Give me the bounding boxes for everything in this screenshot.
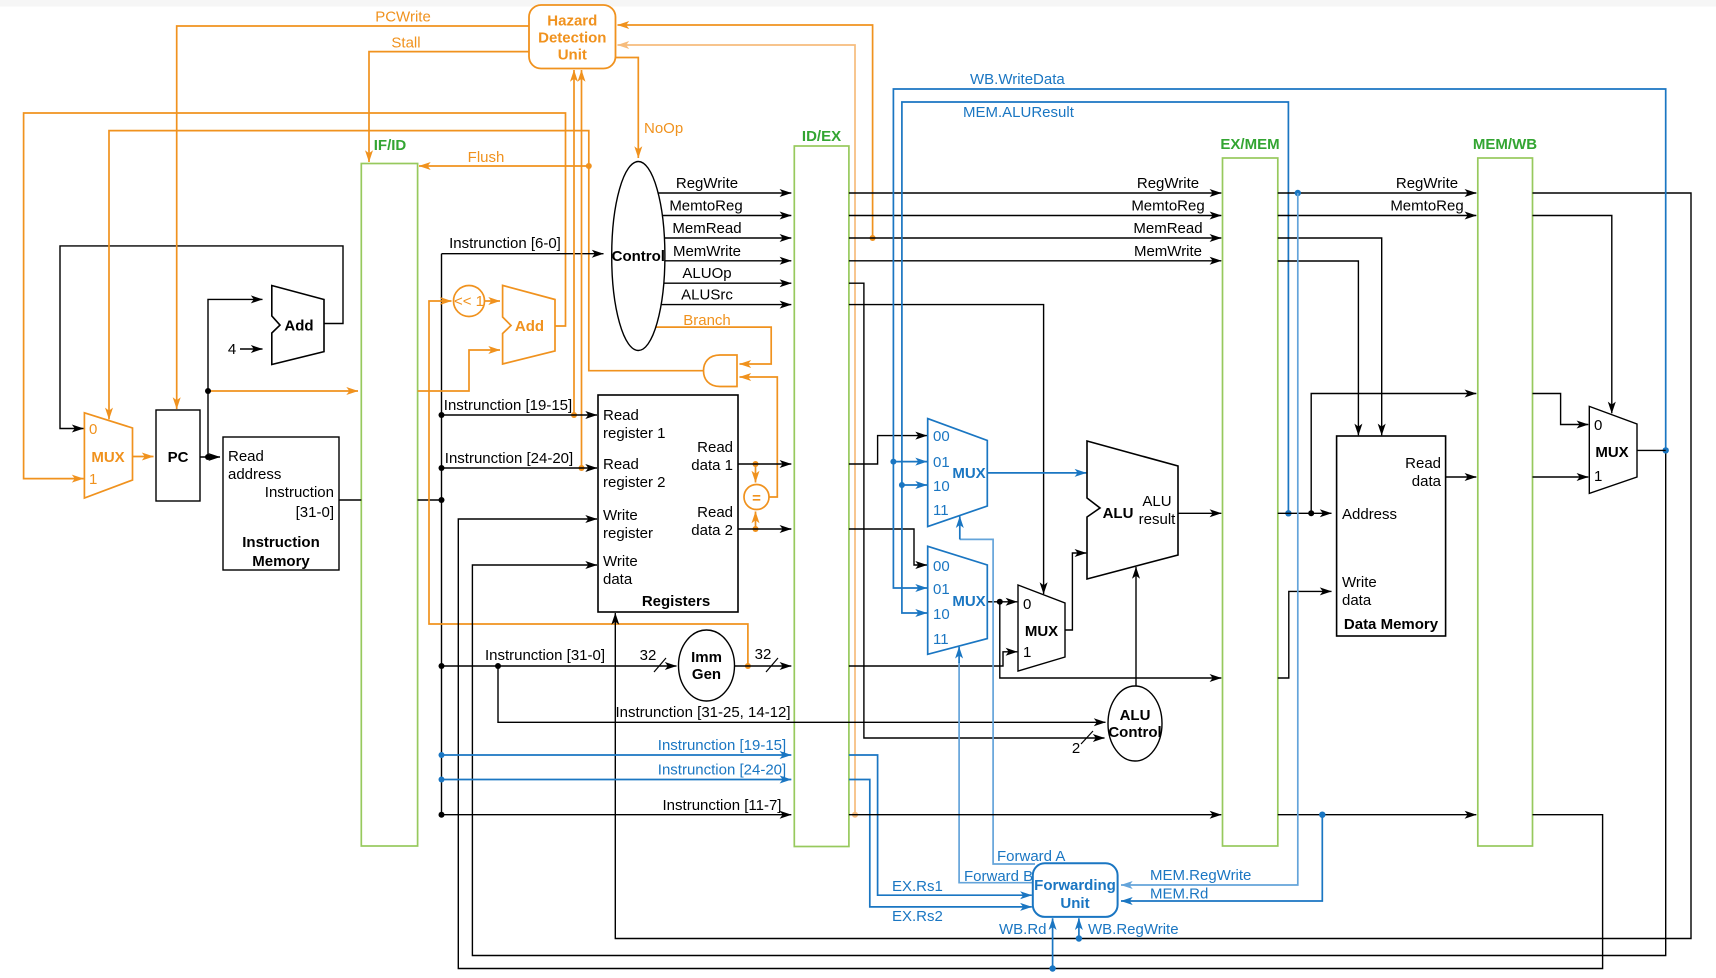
junction MEM.RegWrite tap (1295, 190, 1301, 196)
junction WB forward A (890, 459, 896, 465)
alu U_ALU (1087, 441, 1178, 579)
wire Control MemRead to ID/EX (665, 237, 792, 239)
junction bus 24-20 (439, 465, 445, 471)
svg-text:MemtoReg: MemtoReg (1390, 198, 1463, 215)
svg-text:11: 11 (933, 502, 949, 519)
wire instruction bus after IF/ID (418, 499, 442, 501)
svg-text:data 2: data 2 (691, 522, 733, 539)
constant 4 input to Add (228, 341, 263, 358)
wire WB.WriteData to forward muxes input 01 (893, 89, 1665, 588)
junction mux B output (997, 599, 1003, 605)
svg-text:MEM.Rd: MEM.Rd (1150, 886, 1208, 903)
svg-text:RegWrite: RegWrite (1396, 175, 1458, 192)
svg-text:ALU: ALU (1120, 707, 1151, 724)
wire WB mux output (1637, 449, 1666, 451)
svg-text:Instruction: Instruction (265, 484, 334, 501)
wire PCWrite from Hazard Detection Unit to PC (177, 26, 529, 409)
svg-text:MemWrite: MemWrite (673, 243, 741, 260)
wire Control MemtoReg to ID/EX (662, 215, 791, 217)
svg-text:MEM/WB: MEM/WB (1473, 136, 1537, 153)
wire MemtoReg ID/EX to EX/MEM (849, 215, 1221, 217)
wire read data 2 from ID/EX to forward mux B input 00 (849, 529, 927, 565)
wire RegWrite from MEM/WB loop to Registers (615, 193, 1691, 939)
pipeline register IF/ID (361, 137, 417, 846)
wire MEM.RegWrite to Forwarding Unit (1121, 193, 1298, 885)
svg-text:MUX: MUX (1025, 623, 1058, 640)
svg-text:IF/ID: IF/ID (374, 137, 407, 154)
svg-text:0: 0 (89, 421, 97, 438)
svg-text:Instrunction [31-0]: Instrunction [31-0] (485, 647, 605, 664)
junction blue 19-15 (439, 752, 445, 758)
wire MemWrite to Data Memory (1278, 261, 1359, 435)
wire ALU result from MEM/WB to WB mux input 0 (1533, 394, 1589, 425)
wire ALU Control output to ALU (1135, 567, 1137, 686)
svg-text:Instrunction [6-0]: Instrunction [6-0] (449, 235, 561, 252)
svg-text:Add: Add (284, 318, 313, 335)
wire RegWrite ID/EX to EX/MEM (849, 192, 1221, 194)
svg-text:Read: Read (1405, 455, 1441, 472)
svg-text:[31-0]: [31-0] (296, 504, 334, 521)
svg-text:Instrunction [24-20]: Instrunction [24-20] (445, 450, 573, 467)
svg-text:Read: Read (603, 456, 639, 473)
svg-text:Control: Control (1108, 724, 1161, 741)
wire forwarded data to EX/MEM write data (1000, 602, 1222, 678)
junction Flush tap (586, 163, 592, 169)
pipeline register MEM/WB (1473, 136, 1537, 846)
junction funct tap (495, 663, 501, 669)
wire write register from MEM/WB.Rd loop (458, 519, 1602, 969)
svg-text:01: 01 (933, 581, 950, 598)
wire Stall from Hazard Detection Unit to IF/ID (369, 52, 529, 162)
svg-text:0: 0 (1023, 596, 1031, 613)
svg-text:Memory: Memory (252, 553, 310, 570)
svg-text:MemRead: MemRead (1133, 220, 1202, 237)
wire ALU result to EX/MEM (1178, 512, 1221, 514)
wire Instruction [11-7] to ID/EX (442, 814, 792, 816)
svg-text:data: data (1412, 473, 1442, 490)
svg-text:01: 01 (933, 454, 950, 471)
svg-text:ALU: ALU (1142, 493, 1171, 510)
wire write data EX/MEM to Data Memory (1278, 591, 1332, 678)
junction on PC output (205, 454, 211, 460)
svg-text:Forwarding: Forwarding (1034, 877, 1116, 894)
wire read data 1 to ID/EX (738, 463, 791, 465)
mux M2 forward A (928, 419, 988, 527)
wire PC value into IF/ID (208, 390, 358, 392)
svg-text:Instrunction [24-20]: Instrunction [24-20] (658, 762, 786, 779)
wire Rd EX/MEM to MEM/WB (1278, 814, 1477, 816)
svg-text:Forward B: Forward B (964, 868, 1033, 885)
svg-text:Write: Write (603, 507, 638, 524)
wire ID/EX.Rd to Hazard Detection Unit (618, 45, 856, 815)
svg-text:1: 1 (1023, 644, 1031, 661)
svg-text:Hazard: Hazard (547, 13, 597, 30)
wire Control MemWrite to ID/EX (665, 260, 791, 262)
junction ALU result black (1308, 510, 1314, 516)
svg-text:MUX: MUX (91, 449, 124, 466)
wire Instruction [19-15] to read register 1 (442, 414, 598, 416)
svg-text:0: 0 (1594, 417, 1602, 434)
adder A1 pc plus 4 (272, 286, 324, 365)
svg-text:MUX: MUX (1595, 444, 1628, 461)
junction instruction bus main (439, 497, 445, 503)
svg-text:data 1: data 1 (691, 457, 733, 474)
svg-text:register 2: register 2 (603, 474, 666, 491)
wire PC to Instruction Memory read address (200, 456, 220, 458)
svg-text:WB.WriteData: WB.WriteData (970, 71, 1065, 88)
svg-text:1: 1 (1594, 468, 1602, 485)
svg-text:Read: Read (603, 407, 639, 424)
mux M3 forward B (928, 546, 988, 654)
wire Forward B from Forwarding Unit to mux B select (959, 662, 1033, 883)
svg-text:PC: PC (168, 449, 189, 466)
wire Instruction [6-0] to Control (442, 253, 604, 255)
svg-text:ALUSrc: ALUSrc (681, 287, 733, 304)
svg-text:Detection: Detection (538, 30, 606, 47)
wire branch target: Add(orange) output to PC mux input 1 (24, 113, 566, 479)
wire read data 2 tap to comparator (755, 512, 757, 530)
shift left 1 unit (454, 286, 485, 317)
wire ALU result to MEM/WB (1311, 394, 1476, 514)
junction MEM.ALUResult tap (1285, 510, 1291, 516)
wire Data Memory read data to MEM/WB (1446, 476, 1477, 478)
svg-text:11: 11 (933, 631, 949, 648)
wire Control ALUOp to ID/EX (664, 282, 792, 284)
junction Rs2 tap (579, 465, 585, 471)
wire read data 1 tap to comparator (755, 464, 757, 483)
wire read data from MEM/WB to WB mux input 1 (1533, 476, 1589, 478)
wire MemtoReg EX/MEM to MEM/WB (1278, 215, 1477, 217)
wire NoOp from Hazard Detection Unit to Control (616, 58, 639, 159)
svg-text:Unit: Unit (1060, 895, 1089, 912)
wire instruction from memory into IF/ID (339, 499, 361, 501)
label 32 before Imm Gen (640, 647, 666, 672)
wire MemRead to Data Memory (1278, 238, 1382, 435)
wire forward mux B output to ALU mux input 0 (987, 601, 1017, 603)
register PC (156, 410, 200, 501)
label 2 with slash on ALUOp (1072, 731, 1093, 757)
svg-text:EX.Rs1: EX.Rs1 (892, 878, 943, 895)
svg-text:32: 32 (640, 647, 657, 664)
svg-text:WB.RegWrite: WB.RegWrite (1088, 921, 1179, 938)
svg-text:RegWrite: RegWrite (676, 175, 738, 192)
svg-text:PCWrite: PCWrite (375, 9, 431, 26)
junction read data 1 tap (753, 461, 759, 467)
svg-text:MemWrite: MemWrite (1134, 243, 1202, 260)
wire PCSrc: AND gate output to PC mux select (109, 131, 704, 420)
wire MEM.ALUResult branch to forward mux A input 10 (902, 484, 927, 486)
svg-text:Read: Read (697, 439, 733, 456)
svg-text:ID/EX: ID/EX (802, 128, 841, 145)
svg-text:MemtoReg: MemtoReg (669, 198, 742, 215)
svg-text:Flush: Flush (468, 149, 505, 166)
wire MEM.ALUResult to forward muxes input 10 (902, 102, 1289, 613)
junction MEM forward A (899, 482, 905, 488)
instruction memory (223, 437, 339, 570)
svg-text:MUX: MUX (952, 465, 985, 482)
wire MemRead ID/EX to EX/MEM (849, 237, 1221, 239)
wire Instruction [19-15] blue to ID/EX (442, 754, 792, 756)
junction bus 19-15 (439, 412, 445, 418)
svg-text:4: 4 (228, 341, 236, 358)
label 32 after Imm Gen (755, 646, 778, 672)
svg-text:EX.Rs2: EX.Rs2 (892, 908, 943, 925)
svg-text:Write: Write (1342, 574, 1377, 591)
svg-text:MemRead: MemRead (672, 220, 741, 237)
svg-text:Address: Address (1342, 506, 1397, 523)
wire PC+4 loop to MUX input 0 (60, 246, 343, 429)
svg-text:Add: Add (515, 318, 544, 335)
junction Rd tap (852, 812, 858, 818)
svg-text:<< 1: << 1 (454, 293, 484, 310)
wire WB.WriteData branch to forward mux A input 01 (893, 461, 927, 463)
forwarding unit U_FWD (1033, 863, 1118, 917)
junction blue 24-20 (439, 777, 445, 783)
junction MEM.Rd tap (1319, 812, 1325, 818)
wire EX.Rs2 to Forwarding Unit (849, 780, 1032, 907)
wire Branch from Control to AND gate (656, 327, 771, 364)
svg-text:=: = (752, 490, 761, 507)
immediate generator Imm Gen (679, 630, 735, 701)
svg-text:10: 10 (933, 478, 950, 495)
svg-text:register 1: register 1 (603, 425, 666, 442)
wire Flush into IF/ID (419, 165, 589, 167)
svg-text:MEM.RegWrite: MEM.RegWrite (1150, 867, 1251, 884)
junction PC tap for IF/ID (205, 388, 211, 394)
register file Registers (598, 395, 738, 612)
wire forward mux A output to ALU (987, 472, 1086, 474)
control unit (612, 162, 665, 351)
svg-text:RegWrite: RegWrite (1137, 175, 1199, 192)
mux M4 alu source (1018, 585, 1065, 671)
wire comparator output to AND gate (740, 377, 778, 497)
wire Control RegWrite to ID/EX (658, 192, 791, 194)
wire MemWrite ID/EX to EX/MEM (849, 260, 1221, 262)
junction read data 2 tap (753, 526, 759, 532)
svg-text:Data Memory: Data Memory (1344, 616, 1439, 633)
svg-text:2: 2 (1072, 740, 1080, 757)
svg-text:WB.Rd: WB.Rd (999, 921, 1047, 938)
mux M1 pc source (84, 413, 132, 498)
junction WB.Rd (1049, 965, 1055, 971)
svg-text:1: 1 (89, 471, 97, 488)
svg-text:MemtoReg: MemtoReg (1131, 198, 1204, 215)
wire write data from WB mux loop (472, 450, 1665, 955)
wire Rs1 tap to Hazard Detection Unit (573, 70, 575, 415)
svg-text:10: 10 (933, 606, 950, 623)
pipeline register ID/EX (794, 128, 849, 847)
mux M5 write back (1589, 406, 1637, 493)
wire shifted immediate to << 1 (429, 301, 748, 666)
svg-text:address: address (228, 466, 281, 483)
junction WB.WriteData on mux output (1663, 447, 1669, 453)
wire Instruction [31-0] to Imm Gen (442, 665, 677, 667)
wire Control ALUSrc to ID/EX (661, 304, 791, 306)
svg-text:00: 00 (933, 428, 950, 445)
junction WB.RegWrite (1076, 935, 1082, 941)
wire Instruction [24-20] blue to ID/EX (442, 779, 792, 781)
comparator equal (744, 485, 769, 510)
wire read data 2 to ID/EX (738, 528, 791, 530)
svg-text:ALU: ALU (1103, 505, 1134, 522)
svg-text:register: register (603, 525, 653, 542)
wire PC to Add upper input (208, 299, 263, 457)
junction 11-7 (439, 812, 445, 818)
wire PC mux output to PC (133, 456, 154, 458)
pipeline register EX/MEM (1220, 136, 1279, 846)
svg-text:Branch: Branch (683, 312, 731, 329)
svg-text:Write: Write (603, 553, 638, 570)
svg-text:Imm: Imm (691, 649, 722, 666)
adder A2 branch target (503, 285, 555, 364)
svg-text:NoOp: NoOp (644, 120, 683, 137)
wire << 1 output to Add (485, 300, 501, 302)
wire Forward A from Forwarding Unit to mux A select (960, 539, 1035, 864)
svg-text:Stall: Stall (391, 35, 420, 52)
svg-text:EX/MEM: EX/MEM (1220, 136, 1279, 153)
svg-text:Instrunction [11-7]: Instrunction [11-7] (663, 797, 782, 814)
wire immediate from ID/EX to ALU mux input 1 (849, 652, 1017, 666)
alu control unit (1108, 686, 1162, 761)
wire Rs2 tap to Hazard Detection Unit (581, 70, 583, 468)
svg-text:MEM.ALUResult: MEM.ALUResult (963, 104, 1075, 121)
svg-text:ALUOp: ALUOp (682, 265, 731, 282)
wire instruction bus vertical (441, 254, 443, 815)
junction imm row tap (439, 663, 445, 669)
wire WB.RegWrite to Forwarding Unit (1078, 918, 1080, 938)
svg-text:Gen: Gen (692, 666, 721, 683)
junction Rs1 tap (571, 412, 577, 418)
wire Imm Gen output to ID/EX (735, 665, 792, 667)
wire ID/EX.MemRead to Hazard Detection Unit (618, 25, 873, 238)
wire ALUSrc from ID/EX to ALU mux select (849, 305, 1044, 594)
svg-text:Instrunction [19-15]: Instrunction [19-15] (444, 397, 572, 414)
svg-text:Read: Read (697, 504, 733, 521)
svg-text:00: 00 (933, 558, 950, 575)
junction immediate tap (745, 663, 751, 669)
wire ALUOp from ID/EX to ALU Control (849, 283, 1105, 738)
wire EX.Rs1 to Forwarding Unit (849, 755, 1032, 895)
data memory (1337, 436, 1446, 636)
svg-text:Read: Read (228, 448, 264, 465)
svg-text:data: data (603, 571, 633, 588)
wire Instruction [31-25,14-12] to ALU Control (498, 666, 1106, 722)
wire Rd from ID/EX to EX/MEM (849, 814, 1221, 816)
svg-text:Control: Control (612, 248, 665, 265)
svg-text:data: data (1342, 592, 1372, 609)
svg-text:Registers: Registers (642, 593, 710, 610)
hazard detection unit U_HDU (529, 5, 616, 69)
svg-text:Instrunction [19-15]: Instrunction [19-15] (658, 737, 786, 754)
wire MemtoReg from MEM/WB to WB mux select (1533, 216, 1612, 414)
svg-text:Instrunction [31-25, 14-12]: Instrunction [31-25, 14-12] (615, 704, 790, 721)
wire MEM.Rd to Forwarding Unit (1121, 815, 1322, 901)
svg-text:Unit: Unit (558, 47, 587, 64)
wire ALU result EX/MEM to Data Memory address (1278, 512, 1332, 514)
wire Instruction [24-20] to read register 2 (442, 467, 598, 469)
and gate branch (704, 355, 738, 387)
wire PC from IF/ID to Add lower input (418, 350, 500, 391)
svg-text:result: result (1139, 511, 1177, 528)
wire WB.Rd to Forwarding Unit (1052, 918, 1054, 968)
wire ALU mux output to ALU lower input (1065, 553, 1086, 630)
svg-text:MUX: MUX (952, 593, 985, 610)
wire read data 1 from ID/EX to forward mux A input 00 (849, 436, 927, 464)
wire RegWrite EX/MEM to MEM/WB (1278, 192, 1477, 194)
svg-text:Instruction: Instruction (242, 534, 320, 551)
svg-text:32: 32 (755, 646, 772, 663)
junction MemRead tap (870, 235, 876, 241)
